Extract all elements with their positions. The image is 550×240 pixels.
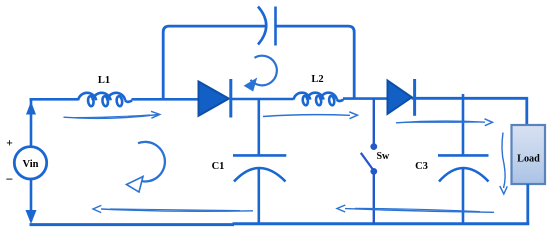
inductor L2 [294, 93, 344, 106]
current arrow left bottom-right mesh [337, 205, 494, 212]
switch Sw top lead [373, 99, 375, 144]
diode D2 [388, 81, 412, 114]
current loop arrow left mesh [127, 142, 165, 192]
wire top loop right side and right riser [276, 26, 355, 99]
capacitor C1 bottom lead [257, 168, 260, 225]
capacitor C2 (top, unlabeled) curved plate [258, 7, 266, 45]
wire main top segment D (L2 to D2, Sw junction) [343, 97, 389, 100]
wire main top segment A (source top to L1) [30, 98, 79, 101]
svg-text:C1: C1 [212, 161, 225, 172]
svg-text:L2: L2 [311, 74, 323, 85]
capacitor C3 straight plate [438, 154, 489, 157]
current arrow down beside Load [500, 133, 508, 195]
capacitor C3 top lead [462, 94, 465, 155]
svg-text:C3: C3 [415, 161, 428, 172]
capacitor C1 top lead [257, 99, 260, 155]
current arrowhead down at bottom-left corner [26, 210, 37, 224]
capacitor C3 bottom lead [462, 168, 465, 224]
switch Sw blade [361, 153, 373, 170]
wire main top segment C (D1 to L2, C1 junction) [232, 98, 294, 101]
svg-text:L1: L1 [98, 75, 110, 86]
svg-text:Load: Load [517, 154, 540, 165]
wire bottom left segment [30, 223, 235, 226]
current loop arrow top mesh (near C2) [245, 56, 277, 91]
inductor L1 [78, 93, 132, 107]
current arrow right under L2 [263, 112, 358, 119]
wire main top segment E (D2 to right corner, down to Load) [412, 98, 527, 126]
wire left vertical upper (source to top wire) [30, 100, 33, 147]
load resistor box [512, 125, 546, 184]
switch Sw lower terminal dot [370, 168, 377, 175]
switch Sw upper terminal dot [370, 143, 377, 150]
current arrow right after D2 [396, 119, 493, 126]
diode D2 cathode bar [413, 79, 416, 116]
switch Sw bottom lead [373, 175, 375, 224]
wire main top segment B (L1 to D1) [132, 98, 201, 101]
capacitor C2 straight plate [274, 7, 277, 46]
diode D1 [199, 82, 229, 116]
capacitor C3 curved plate [439, 168, 489, 182]
capacitor C1 straight plate [233, 154, 286, 157]
current arrowhead up at source top [26, 102, 36, 115]
voltage source Vin [14, 147, 46, 179]
current arrow left bottom-left mesh [93, 205, 253, 212]
diode D1 cathode bar [229, 79, 232, 118]
svg-text:−: − [6, 172, 13, 187]
capacitor C1 curved plate [234, 168, 286, 182]
current arrow right under L1 [64, 111, 160, 118]
wire left vertical lower (source to bottom wire) [30, 179, 33, 222]
wire bottom right segment [233, 222, 530, 225]
wire left riser to top loop [163, 26, 265, 99]
svg-text:+: + [6, 138, 13, 150]
svg-text:Vin: Vin [23, 159, 39, 170]
svg-text:Sw: Sw [377, 151, 391, 162]
wire load bottom lead [526, 184, 529, 224]
